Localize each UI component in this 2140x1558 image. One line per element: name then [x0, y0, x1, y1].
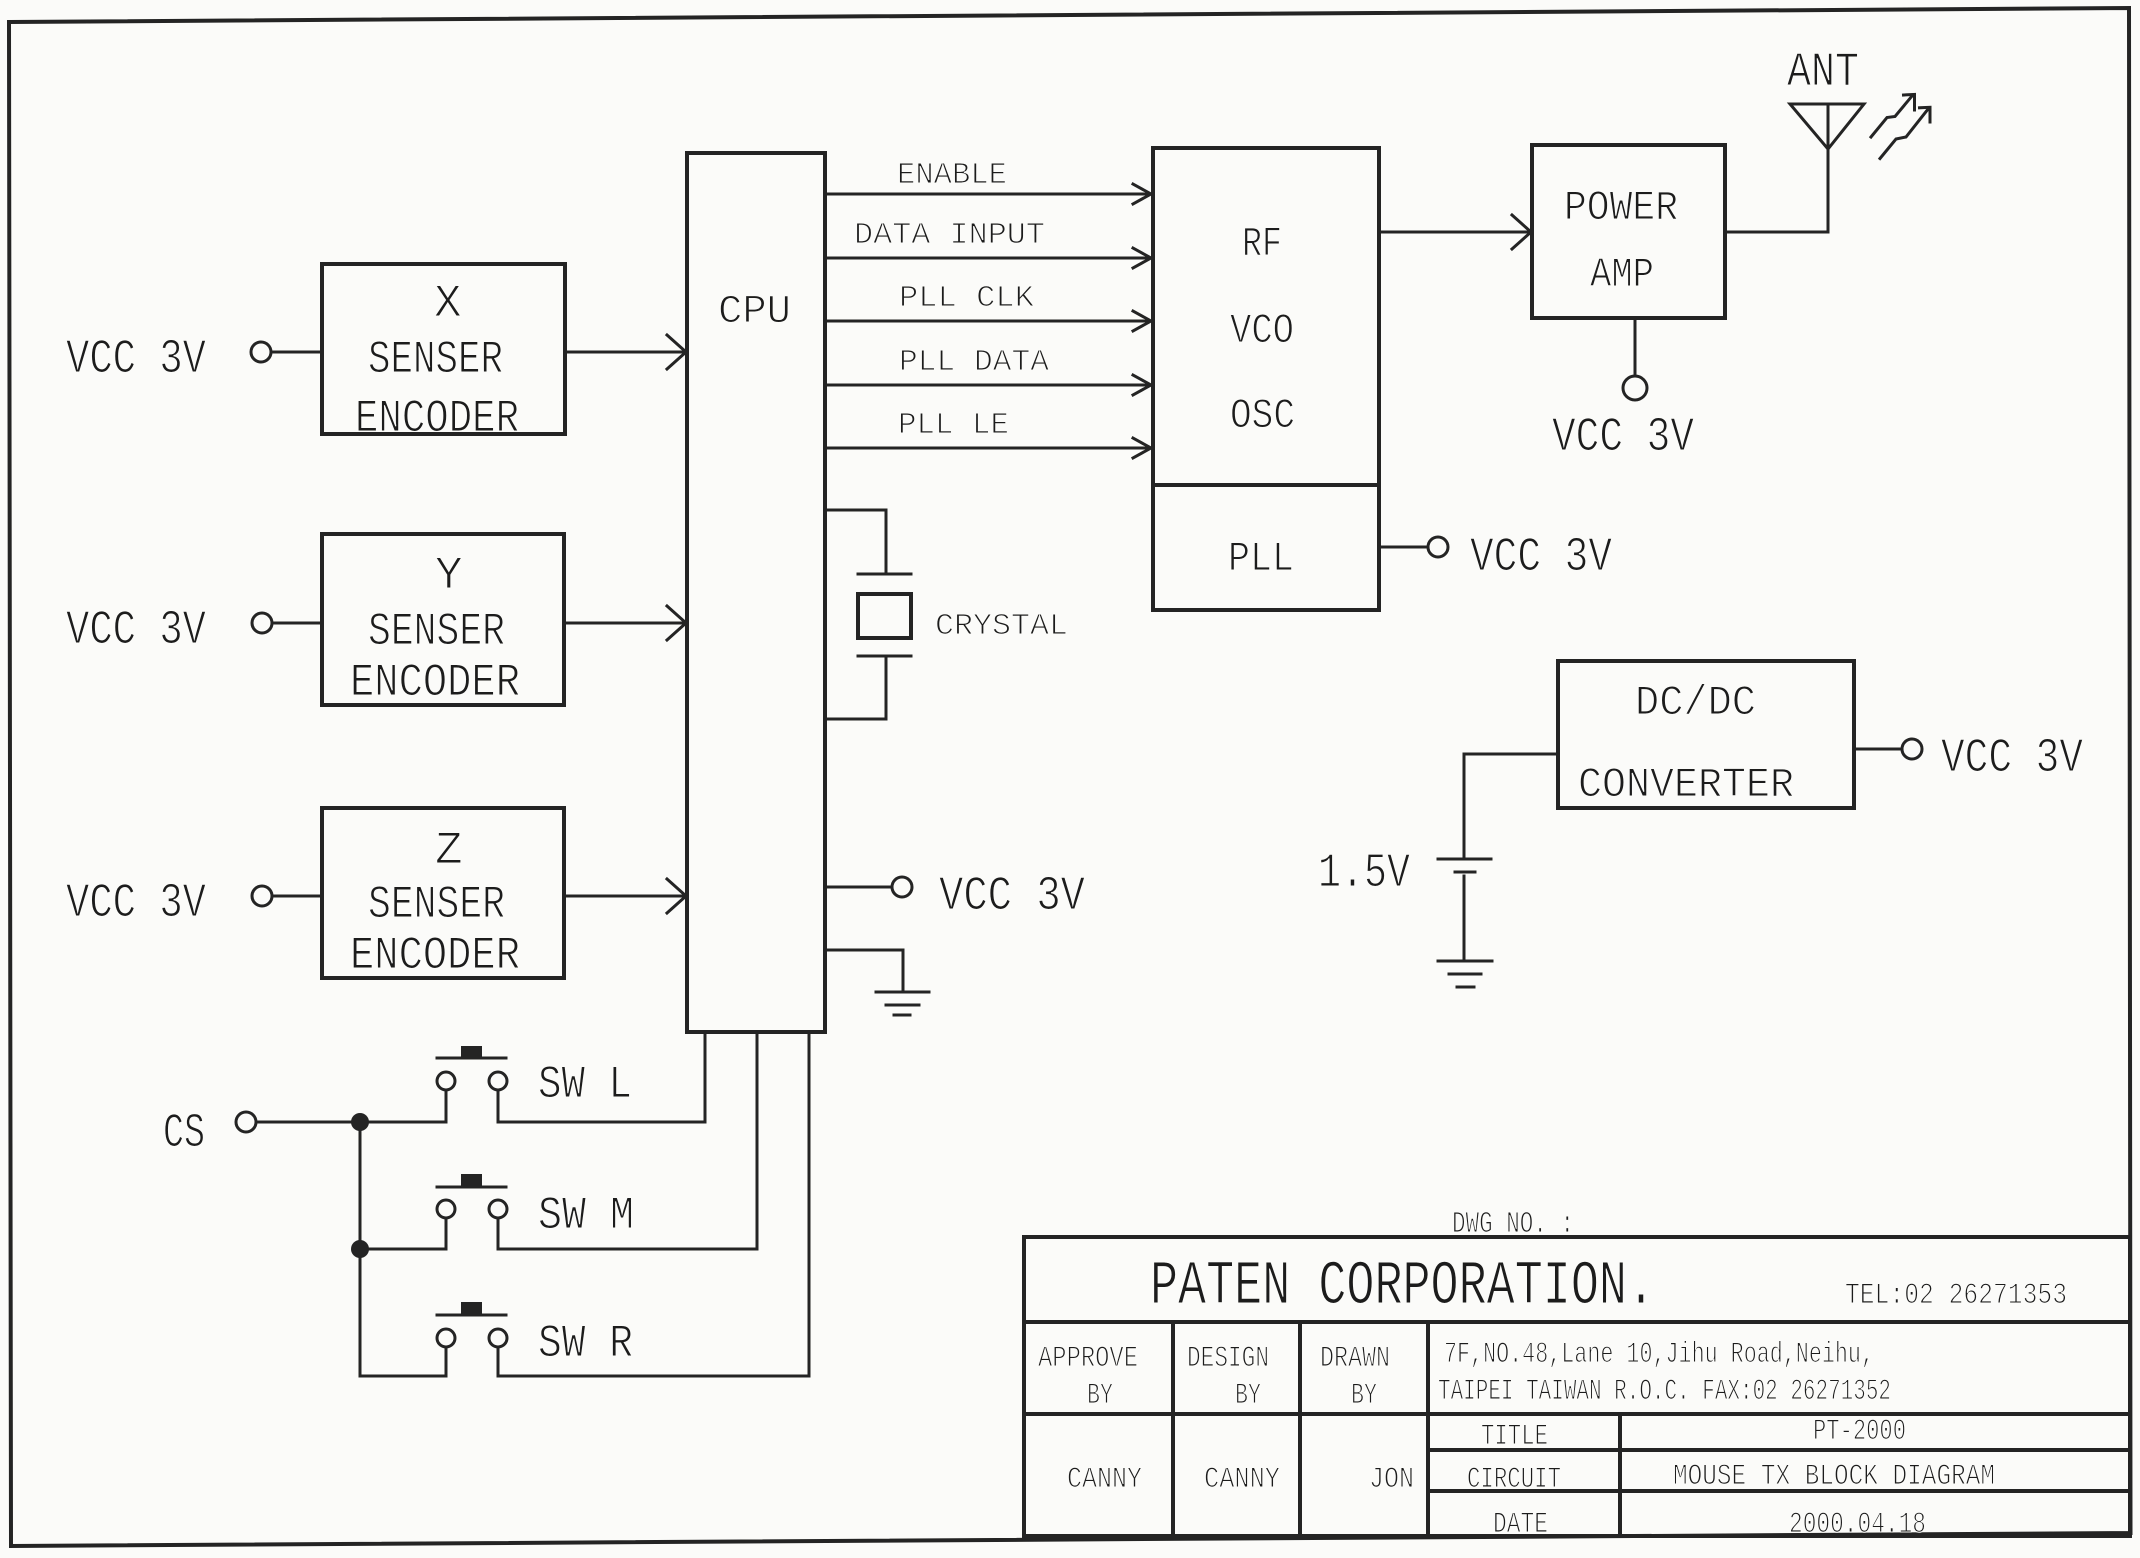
svg-text:ENCODER: ENCODER — [350, 657, 520, 709]
wire bottom stub — [825, 656, 886, 719]
svg-text:2000.04.18: 2000.04.18 — [1789, 1508, 1926, 1542]
node VCC 3V (DC/DC out) — [1854, 748, 1901, 751]
node VCC 3V (power amp) — [1634, 318, 1637, 376]
crystal bottom plate — [858, 655, 911, 658]
svg-text:CANNY: CANNY — [1067, 1463, 1142, 1497]
title block frame — [1024, 1237, 2130, 1536]
crystal top plate — [858, 573, 911, 576]
switch SW R — [360, 1375, 446, 1378]
svg-text:CRYSTAL: CRYSTAL — [935, 609, 1068, 644]
svg-text:PLL: PLL — [1228, 535, 1294, 583]
svg-text:TEL:02 26271353: TEL:02 26271353 — [1845, 1279, 2067, 1313]
node VCC 3V (CPU) — [825, 886, 892, 889]
svg-text:VCC 3V: VCC 3V — [66, 333, 206, 387]
switch SW M — [360, 1248, 446, 1251]
wire — [272, 351, 322, 354]
svg-text:VCO: VCO — [1230, 307, 1294, 355]
svg-text:DATE: DATE — [1493, 1508, 1548, 1542]
ground (CPU) — [876, 991, 929, 994]
svg-text:TAIPEI TAIWAN R.O.C. FAX:02 26: TAIPEI TAIWAN R.O.C. FAX:02 26271352 — [1438, 1375, 1891, 1409]
svg-text:SW L: SW L — [538, 1059, 632, 1111]
svg-text:PLL LE: PLL LE — [898, 408, 1009, 443]
svg-text:DC/DC: DC/DC — [1635, 679, 1756, 727]
svg-text:X: X — [434, 278, 462, 330]
svg-text:BY: BY — [1351, 1379, 1377, 1413]
svg-text:VCC 3V: VCC 3V — [66, 604, 206, 658]
svg-text:VCC 3V: VCC 3V — [1470, 531, 1612, 585]
svg-text:SENSER: SENSER — [368, 606, 505, 658]
svg-text:PLL CLK: PLL CLK — [899, 281, 1034, 316]
wire X encoder to CPU — [565, 351, 684, 354]
svg-text:7F,NO.48,Lane 10,Jihu Road,Nei: 7F,NO.48,Lane 10,Jihu Road,Neihu, — [1444, 1338, 1874, 1372]
crystal body — [858, 594, 911, 638]
svg-text:DRAWN: DRAWN — [1320, 1342, 1390, 1376]
svg-text:OSC: OSC — [1230, 392, 1295, 440]
junction — [351, 1113, 369, 1131]
svg-text:BY: BY — [1235, 1379, 1261, 1413]
svg-text:ENCODER: ENCODER — [350, 930, 520, 982]
svg-text:CS: CS — [163, 1107, 205, 1161]
block CPU — [687, 153, 825, 1032]
svg-text:VCC 3V: VCC 3V — [939, 870, 1085, 924]
svg-text:ENCODER: ENCODER — [355, 393, 519, 445]
wire CS bus — [256, 1121, 446, 1124]
svg-text:BY: BY — [1087, 1379, 1113, 1413]
svg-text:CONVERTER: CONVERTER — [1578, 761, 1794, 809]
svg-text:AMP: AMP — [1590, 251, 1654, 299]
wire AMP to antenna — [1725, 231, 1828, 234]
svg-text:PLL DATA: PLL DATA — [899, 345, 1049, 380]
svg-text:VCC 3V: VCC 3V — [66, 877, 206, 931]
block DC/DC CONVERTER — [1558, 661, 1854, 808]
switch SW L — [445, 1090, 448, 1122]
svg-text:CPU: CPU — [718, 290, 791, 335]
node VCC 3V (PLL) — [1379, 546, 1427, 549]
wire Y encoder to CPU — [564, 622, 684, 625]
svg-text:MOUSE TX BLOCK DIAGRAM: MOUSE TX BLOCK DIAGRAM — [1673, 1460, 1995, 1494]
block POWER AMP — [1532, 145, 1725, 318]
svg-text:SW R: SW R — [538, 1318, 633, 1370]
svg-text:Y: Y — [435, 550, 463, 602]
junction — [351, 1240, 369, 1258]
RF radiation waves — [1871, 96, 1912, 137]
ground (battery) — [1438, 960, 1492, 963]
svg-text:RF: RF — [1242, 220, 1282, 268]
svg-text:SENSER: SENSER — [368, 879, 505, 931]
svg-text:PATEN CORPORATION.: PATEN CORPORATION. — [1150, 1251, 1655, 1322]
wire Z encoder to CPU — [564, 895, 684, 898]
svg-text:VCC 3V: VCC 3V — [1552, 411, 1694, 465]
wire DC/DC to battery — [1464, 754, 1558, 858]
svg-text:VCC 3V: VCC 3V — [1941, 732, 2083, 786]
PLL section divider — [1153, 483, 1379, 487]
svg-text:Z: Z — [435, 825, 463, 877]
svg-text:DATA INPUT: DATA INPUT — [854, 218, 1045, 253]
svg-text:CANNY: CANNY — [1204, 1463, 1280, 1497]
block RF VCO OSC — [1153, 148, 1379, 610]
wire bus vertical — [359, 1122, 362, 1376]
wire — [273, 895, 322, 898]
svg-text:TITLE: TITLE — [1481, 1420, 1548, 1454]
svg-text:JON: JON — [1369, 1463, 1414, 1497]
block Y SENSER ENCODER — [322, 534, 564, 705]
wire RF to POWER AMP — [1379, 231, 1529, 234]
wire — [273, 622, 322, 625]
svg-text:ANT: ANT — [1787, 46, 1859, 100]
svg-text:POWER: POWER — [1564, 184, 1678, 232]
svg-text:1.5V: 1.5V — [1318, 847, 1410, 901]
svg-text:SENSER: SENSER — [368, 334, 503, 386]
svg-text:PT-2000: PT-2000 — [1813, 1415, 1906, 1449]
wire top stub — [825, 510, 886, 574]
svg-text:DESIGN: DESIGN — [1187, 1342, 1269, 1376]
svg-text:SW M: SW M — [538, 1190, 634, 1242]
svg-text:CIRCUIT: CIRCUIT — [1467, 1463, 1561, 1497]
svg-text:ENABLE: ENABLE — [897, 158, 1007, 193]
svg-text:APPROVE: APPROVE — [1038, 1342, 1138, 1376]
block X SENSER ENCODER — [322, 264, 565, 434]
wire CPU to ground — [825, 950, 903, 991]
block Z SENSER ENCODER — [322, 808, 564, 978]
